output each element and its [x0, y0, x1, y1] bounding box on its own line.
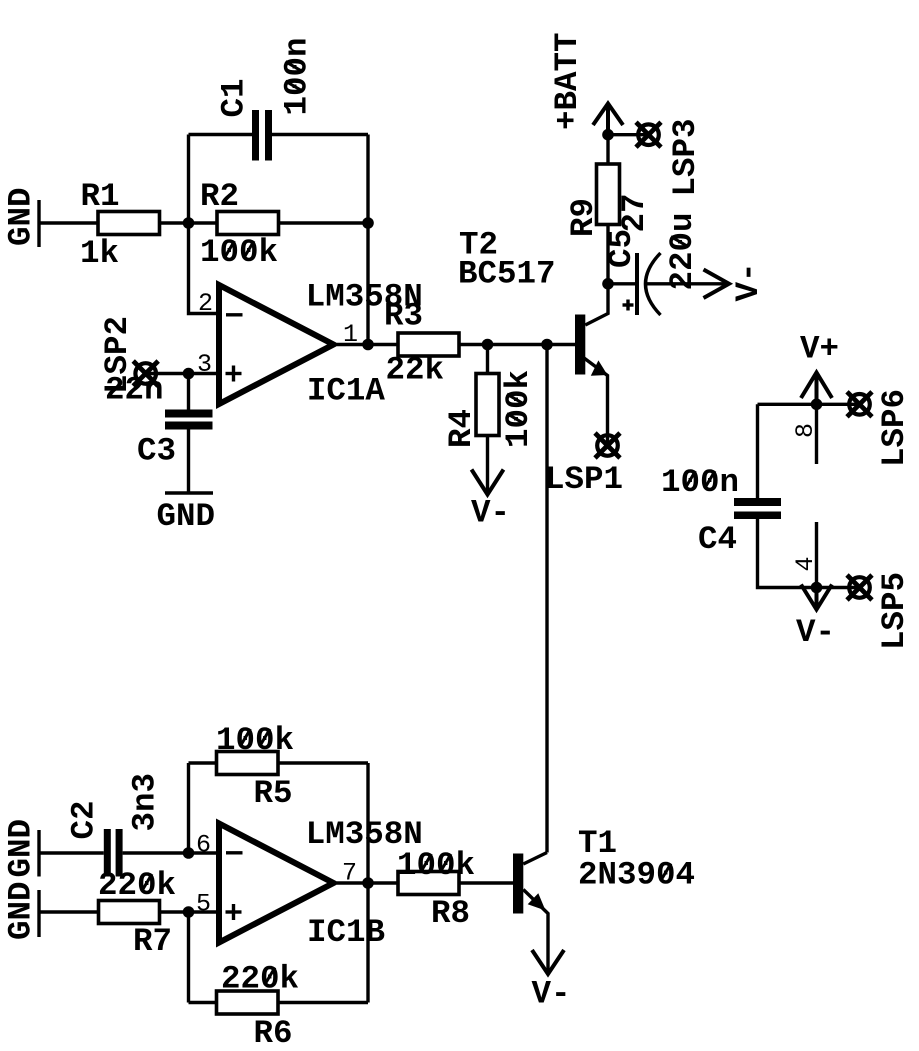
transistor Q2 T1	[513, 825, 695, 972]
solder pad LSP6	[847, 389, 913, 467]
svg-text:R5: R5	[254, 775, 293, 812]
svg-text:100k: 100k	[216, 722, 294, 759]
wire op-amp output to R3	[337, 343, 398, 346]
junction T2 base / T1 collector node	[541, 339, 553, 351]
wire GND to R7	[39, 910, 99, 913]
resistor R6	[217, 961, 300, 1051]
junction R9/C5/T2 collector node	[602, 278, 614, 290]
pin 4 stub	[791, 522, 820, 588]
junction V+/pin8/LSP6 node	[811, 399, 823, 411]
svg-text:IC1A: IC1A	[307, 373, 386, 410]
svg-text:V-: V-	[796, 614, 835, 651]
supply V- arrow below LSP5 rail	[796, 585, 835, 652]
junction pin5/R6 node	[183, 906, 195, 918]
wire LSP2 to pin3	[146, 372, 219, 375]
svg-text:4: 4	[791, 556, 820, 571]
resistor R5	[216, 722, 294, 812]
junction R3/R4 node	[482, 339, 494, 351]
svg-text:LSP6: LSP6	[876, 389, 913, 467]
wire R1 to R2	[160, 221, 218, 224]
svg-text:5: 5	[196, 890, 211, 919]
transistor Q1 T2	[458, 227, 608, 446]
wire C1 top right	[272, 133, 368, 136]
svg-text:R3: R3	[384, 298, 423, 335]
wire right vertical IC1B	[366, 763, 369, 1003]
svg-text:8: 8	[791, 423, 820, 438]
svg-text:IC1B: IC1B	[307, 914, 385, 951]
solder pad LSP3	[636, 118, 704, 196]
wire GND to C2	[39, 851, 104, 854]
pin 8 stub	[791, 404, 820, 464]
junction pin3/C3 node	[183, 368, 195, 380]
svg-text:C4: C4	[698, 521, 737, 558]
junction IC1A output node	[362, 339, 374, 351]
supply V- arrow right of C5	[704, 262, 768, 301]
wire GND to R1	[39, 221, 98, 224]
svg-text:V-: V-	[532, 976, 571, 1013]
svg-text:100k: 100k	[500, 370, 537, 448]
svg-text:V-: V-	[730, 262, 767, 301]
svg-text:C3: C3	[137, 433, 176, 470]
svg-text:100n: 100n	[661, 464, 739, 501]
svg-text:LSP5: LSP5	[876, 572, 913, 650]
resistor R4	[443, 345, 537, 493]
junction pin6/R5 node	[183, 847, 195, 859]
svg-text:R4: R4	[443, 409, 480, 448]
ground GND below C3	[157, 493, 216, 535]
svg-text:R8: R8	[431, 895, 470, 932]
svg-text:GND: GND	[3, 819, 40, 878]
svg-text:220k: 220k	[221, 961, 299, 998]
wire output IC1B to R8	[337, 881, 398, 884]
svg-text:22k: 22k	[386, 352, 445, 389]
svg-text:22n: 22n	[105, 372, 164, 409]
svg-text:BC517: BC517	[458, 256, 556, 293]
svg-text:R9: R9	[565, 198, 602, 237]
wire right vertical C1 to output	[366, 135, 369, 345]
supply +BATT arrow	[549, 32, 623, 134]
svg-text:R1: R1	[81, 178, 120, 215]
resistor R8	[397, 847, 475, 932]
op-amp U1 IC1A	[197, 279, 423, 410]
svg-text:100n: 100n	[279, 37, 316, 115]
svg-text:C2: C2	[66, 800, 103, 839]
wire feedback left vertical lower	[187, 912, 190, 1003]
resistor R3	[384, 298, 459, 389]
supply V+ arrow	[800, 331, 839, 405]
wire V+ rail to LSP6	[758, 403, 860, 406]
junction R2/C1 feedback node	[362, 217, 374, 229]
junction R1/R2 node	[183, 217, 195, 229]
svg-text:C5: C5	[603, 229, 640, 268]
capacitor C4	[661, 404, 817, 587]
junction V-/pin4/LSP5 node	[811, 582, 823, 594]
solder pad LSP1	[545, 433, 623, 498]
wire R6 row	[189, 1001, 369, 1004]
resistor R7	[98, 867, 176, 960]
svg-text:GND: GND	[3, 881, 40, 940]
svg-text:R2: R2	[200, 178, 239, 215]
svg-text:LSP3: LSP3	[667, 118, 704, 196]
svg-text:3n3: 3n3	[127, 773, 164, 832]
wire feedback left vertical upper	[187, 763, 190, 853]
wire R3 to T2 base	[459, 343, 575, 346]
svg-text:27: 27	[616, 193, 653, 232]
svg-text:C1: C1	[216, 78, 253, 117]
svg-text:GND: GND	[3, 187, 40, 246]
svg-text:2N3904: 2N3904	[578, 857, 695, 894]
wire R8 to T1 base	[459, 881, 513, 884]
svg-text:2: 2	[198, 289, 213, 318]
svg-text:100k: 100k	[397, 847, 475, 884]
capacitor C1	[216, 37, 316, 160]
svg-text:6: 6	[196, 831, 211, 860]
svg-text:220u: 220u	[664, 212, 701, 290]
resistor R1	[80, 178, 160, 272]
supply V- arrow below R4	[471, 470, 510, 532]
ground GND left bar upper (pin6 net)	[3, 819, 40, 878]
ground GND left bar lower (pin5 net)	[3, 881, 40, 940]
wire V- rail to LSP5	[817, 586, 860, 589]
resistor R9	[565, 135, 653, 284]
ground GND top-left symbol	[3, 187, 40, 247]
svg-text:R7: R7	[133, 923, 172, 960]
svg-text:100k: 100k	[200, 234, 278, 271]
svg-text:1k: 1k	[80, 235, 119, 272]
wire T1 collector long vertical	[545, 345, 548, 853]
svg-text:V+: V+	[800, 331, 839, 368]
resistor R2	[200, 178, 279, 271]
capacitor C3	[105, 372, 213, 492]
wire R7 to pin5	[160, 910, 220, 913]
wire C1 top left	[189, 133, 253, 136]
svg-text:220k: 220k	[98, 867, 176, 904]
supply V- arrow below T1	[532, 950, 571, 1013]
svg-text:GND: GND	[157, 498, 216, 535]
junction +BATT/R9/LSP3 node	[602, 129, 614, 141]
svg-text:R6: R6	[254, 1015, 293, 1051]
wire R2 to right vertical	[279, 221, 369, 224]
wire left vertical junction to pin2	[189, 135, 220, 314]
junction IC1B output node	[362, 877, 374, 889]
capacitor C5 polarized	[603, 212, 725, 315]
wire C2 to pin6	[123, 851, 219, 854]
solder pad LSP2	[99, 316, 158, 394]
wire R5 row	[189, 761, 369, 764]
op-amp U2 IC1B	[196, 816, 423, 951]
svg-text:+BATT: +BATT	[549, 32, 586, 130]
solder pad LSP5	[847, 572, 913, 650]
capacitor C2	[66, 773, 164, 877]
svg-text:V-: V-	[471, 495, 510, 532]
wire +BATT to LSP3	[608, 133, 649, 136]
svg-text:LSP1: LSP1	[545, 461, 623, 498]
